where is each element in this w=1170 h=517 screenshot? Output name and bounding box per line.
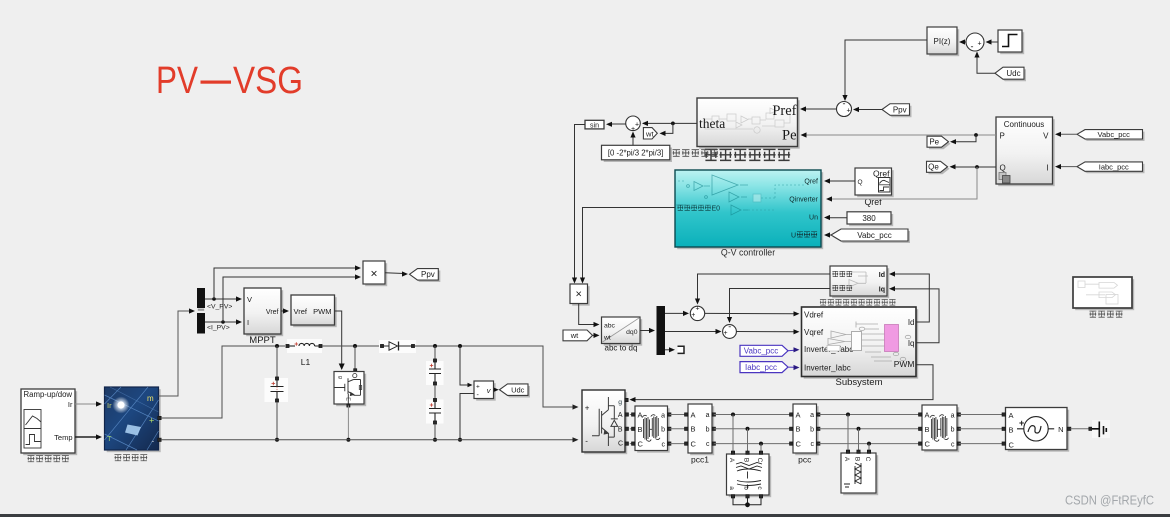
svg-text:C: C bbox=[638, 440, 644, 449]
wire step to sum bbox=[990, 41, 998, 43]
svg-text:B: B bbox=[854, 457, 861, 461]
wire phase B bbox=[819, 428, 921, 430]
svg-text:Un: Un bbox=[809, 215, 818, 222]
wire phase C bbox=[714, 443, 791, 445]
svg-text:sin: sin bbox=[590, 122, 599, 129]
ground bbox=[1092, 420, 1110, 438]
svg-text:Vqref: Vqref bbox=[804, 328, 824, 337]
block Subsystem bbox=[804, 309, 919, 379]
wire phase A bbox=[630, 414, 633, 416]
demux bar bbox=[657, 306, 666, 355]
PV ports bbox=[158, 416, 161, 419]
caption rotor mechanical equation bbox=[705, 149, 717, 160]
svg-text:I: I bbox=[1046, 164, 1048, 173]
svg-text:A: A bbox=[618, 412, 623, 419]
svg-text:Pe: Pe bbox=[929, 138, 939, 147]
tag From Iabc_pcc right bbox=[1079, 164, 1145, 173]
svg-text:Qref: Qref bbox=[804, 179, 818, 186]
wire P output to theta Pe bbox=[803, 134, 996, 136]
svg-text:380: 380 bbox=[862, 214, 876, 223]
wire MPPT to boost PWM bbox=[281, 310, 287, 312]
inverter g port bbox=[625, 398, 628, 401]
svg-text:+: + bbox=[1019, 418, 1024, 428]
block Q-V controller bbox=[677, 172, 823, 249]
svg-text:V: V bbox=[247, 295, 252, 304]
wire Qref to Q-V bbox=[826, 180, 855, 182]
svg-text:A: A bbox=[925, 411, 930, 420]
tag From Iabc_pcc purple bbox=[740, 362, 788, 373]
svg-text:L1: L1 bbox=[301, 357, 311, 367]
block boost Vref PWM bbox=[293, 297, 337, 327]
svg-text:dq0: dq0 bbox=[626, 329, 638, 336]
sum U2 (Pref loop) bbox=[837, 102, 852, 117]
svg-text:wt: wt bbox=[645, 129, 654, 138]
svg-text:-: - bbox=[585, 436, 588, 445]
svg-text:+: + bbox=[977, 41, 981, 48]
svg-text:C: C bbox=[925, 440, 931, 449]
svg-text:B: B bbox=[925, 425, 930, 434]
svg-text:B: B bbox=[796, 425, 801, 434]
svg-text:+: + bbox=[691, 312, 695, 319]
svg-text:A: A bbox=[691, 410, 696, 419]
wire Udc measure branches bbox=[460, 346, 471, 385]
svg-text:theta: theta bbox=[699, 116, 725, 131]
wire sum U3 to sin bbox=[608, 123, 626, 125]
svg-text:c: c bbox=[662, 441, 666, 448]
svg-text:Vref: Vref bbox=[294, 307, 308, 316]
wire Iabc_pcc to I bbox=[1057, 166, 1077, 168]
svg-text:c: c bbox=[811, 441, 815, 448]
svg-text:Udc: Udc bbox=[511, 385, 525, 394]
tag From wt left bbox=[563, 330, 593, 341]
svg-text:abc: abc bbox=[604, 323, 616, 330]
block product E0*sin bbox=[572, 286, 590, 306]
wire wt to abc2dq bbox=[593, 334, 599, 336]
svg-text:B: B bbox=[1009, 426, 1014, 435]
svg-text:-: - bbox=[843, 99, 846, 109]
caption irradiance and temperature bbox=[27, 456, 34, 462]
wire demux d to sum V1 bbox=[665, 312, 687, 314]
block step source bbox=[1000, 32, 1024, 54]
svg-text:wt: wt bbox=[603, 335, 611, 342]
svg-text:Vabc_pcc: Vabc_pcc bbox=[1098, 130, 1131, 139]
block product Ppv bbox=[365, 263, 387, 286]
svg-text:+: + bbox=[723, 330, 727, 337]
wire phase B bbox=[714, 428, 791, 430]
svg-text:<V_PV>: <V_PV> bbox=[207, 304, 232, 311]
svg-text:+: + bbox=[585, 403, 590, 412]
wire vmeter to Udc tag bbox=[494, 389, 498, 391]
wire Ppv to sum bbox=[856, 109, 882, 111]
svg-text:a: a bbox=[728, 486, 735, 490]
svg-text:A: A bbox=[843, 457, 850, 462]
wire Subsystem Iq up to impedance bbox=[891, 289, 939, 343]
svg-text:C: C bbox=[864, 457, 871, 462]
svg-text:Temp: Temp bbox=[54, 433, 72, 442]
svg-text:Id: Id bbox=[908, 318, 915, 327]
caption expand to three phase bbox=[673, 150, 680, 157]
svg-text:c: c bbox=[706, 441, 710, 448]
wire phase B bbox=[630, 428, 633, 430]
wire sum to theta Pref bbox=[803, 108, 837, 110]
svg-text:Q: Q bbox=[858, 179, 863, 186]
impedance inner diagram bbox=[849, 272, 868, 287]
block transformer bbox=[637, 408, 670, 453]
svg-text:g: g bbox=[337, 376, 343, 379]
terminator bbox=[678, 346, 685, 353]
svg-text:c: c bbox=[951, 441, 955, 448]
wire PV minus rail bbox=[161, 439, 577, 441]
svg-text:Inverter_Iabc: Inverter_Iabc bbox=[804, 363, 851, 372]
svg-text:Continuous: Continuous bbox=[1004, 120, 1044, 129]
transformer windings bbox=[642, 415, 660, 442]
block PV array bbox=[107, 389, 161, 452]
wire impedance q output to sum V2 bbox=[730, 289, 831, 323]
wire impedance d output to sum V1 bbox=[698, 274, 831, 304]
wire I_PV junction to product bbox=[223, 277, 360, 322]
wire sum V2 to Vqref bbox=[736, 331, 797, 333]
wire PV plus to boost rail bbox=[161, 346, 285, 418]
svg-text:pcc: pcc bbox=[798, 455, 812, 465]
svg-text:+: + bbox=[476, 384, 480, 391]
block constant [0 -2*pi/3 2*pi/3] bbox=[604, 148, 672, 163]
load1 neutral tie bbox=[733, 498, 761, 505]
svg-text:C: C bbox=[796, 439, 802, 448]
wire junction to Pe tag bbox=[952, 135, 976, 142]
wire Vabc_pcc to U inverter bbox=[826, 234, 831, 236]
wire to DC link caps bbox=[434, 346, 436, 360]
block MPPT bbox=[246, 290, 283, 336]
svg-text:a: a bbox=[810, 412, 814, 419]
svg-text:×: × bbox=[370, 267, 377, 281]
svg-text:E: E bbox=[344, 397, 350, 401]
wire junction to wt tag bbox=[661, 123, 673, 133]
svg-text:Vdref: Vdref bbox=[804, 310, 824, 319]
svg-text:Ppv: Ppv bbox=[893, 105, 907, 114]
svg-text:B: B bbox=[638, 425, 643, 434]
svg-text:A: A bbox=[1009, 411, 1014, 420]
svg-text:-: - bbox=[728, 322, 731, 332]
svg-text:Ir: Ir bbox=[68, 400, 73, 409]
svg-text:wt: wt bbox=[570, 331, 579, 340]
wire pcc1 taps to load1 bbox=[732, 415, 734, 453]
svg-text:Id: Id bbox=[879, 272, 885, 279]
svg-text:PV: PV bbox=[156, 60, 199, 102]
svg-text:pcc1: pcc1 bbox=[691, 455, 709, 465]
wire E0 output to product bbox=[583, 208, 676, 282]
svg-text:Ppv: Ppv bbox=[421, 270, 435, 279]
block impedance drop calc (virtual impedance) bbox=[832, 268, 889, 298]
svg-text:Iabc_pcc: Iabc_pcc bbox=[745, 363, 777, 372]
svg-text:PWM: PWM bbox=[313, 307, 331, 316]
wire sum V1 to Vdref bbox=[705, 312, 798, 314]
svg-text:Iq: Iq bbox=[908, 339, 915, 348]
svg-text:abc to dq: abc to dq bbox=[605, 344, 638, 353]
wire rail to cap bbox=[276, 346, 278, 377]
svg-text:P: P bbox=[1000, 132, 1005, 141]
svg-text:Vabc_pcc: Vabc_pcc bbox=[744, 347, 779, 356]
block three-phase source bbox=[1008, 410, 1069, 452]
PV panel texture bbox=[105, 387, 159, 450]
wire Subsystem Id up to impedance bbox=[891, 274, 929, 322]
wire phase A bbox=[959, 414, 1002, 416]
wire phase A bbox=[670, 414, 687, 416]
svg-text:+: + bbox=[695, 306, 699, 313]
shunt capacitor C1 bbox=[265, 378, 289, 402]
wire Udc to sum bbox=[977, 54, 995, 73]
wire Subsystem PWM to inverter g bbox=[631, 365, 933, 400]
wire V_PV junction to product bbox=[214, 268, 360, 299]
svg-text:+: + bbox=[635, 122, 639, 129]
svg-text:C: C bbox=[618, 441, 623, 448]
wire demux q to sum V2 bbox=[665, 331, 720, 333]
bottom dark strip bbox=[0, 514, 1170, 517]
svg-text:PI(z): PI(z) bbox=[934, 37, 951, 46]
DC link capacitor C3 bbox=[426, 400, 444, 424]
inverter IGBT icon bbox=[592, 397, 618, 446]
block rotor mechanical equation (theta) bbox=[699, 100, 800, 149]
wire PI(z) to sum Pref loop bbox=[845, 40, 927, 99]
svg-text:Qe: Qe bbox=[928, 163, 939, 172]
block inverter bridge bbox=[584, 392, 627, 454]
wire constant to sum U3 bbox=[632, 134, 634, 146]
svg-text:Pref: Pref bbox=[772, 103, 796, 119]
caption impedance drop calc bbox=[820, 300, 826, 306]
wire N to ground bbox=[1071, 428, 1091, 430]
tag Goto Ppv bbox=[412, 271, 441, 283]
svg-text:b: b bbox=[810, 426, 814, 433]
Q-V port label E0 bbox=[677, 205, 683, 210]
tag Goto Udc bbox=[502, 386, 531, 398]
svg-text:Vref: Vref bbox=[266, 309, 279, 316]
sum U1 (Udc error) bbox=[966, 33, 984, 51]
svg-text:b: b bbox=[706, 426, 710, 433]
wire abc2dq to demux bbox=[640, 330, 653, 332]
svg-text:Ir: Ir bbox=[107, 401, 112, 410]
svg-text:Udc: Udc bbox=[1006, 69, 1020, 78]
wire Q output to Qe and Qinverter bbox=[951, 166, 996, 168]
impedance port q component bbox=[832, 285, 838, 290]
svg-text:a: a bbox=[951, 412, 955, 419]
svg-text:a: a bbox=[706, 412, 710, 419]
ramp icon bbox=[24, 410, 41, 449]
svg-text:[0 -2*pi/3 2*pi/3]: [0 -2*pi/3 2*pi/3] bbox=[608, 148, 663, 157]
wire junction down to Qinverter bbox=[828, 167, 977, 199]
wire phase B bbox=[959, 428, 1002, 430]
wire demux 0 to terminator bbox=[665, 349, 674, 351]
wire Temp to PV bbox=[75, 436, 100, 438]
svg-text:T: T bbox=[107, 434, 112, 443]
Subsystem pink block bbox=[885, 325, 899, 352]
impedance port d component bbox=[832, 271, 838, 276]
wire junction to IGBT bbox=[354, 346, 356, 370]
wire Vabc_pcc to V bbox=[1057, 133, 1077, 135]
svg-text:U: U bbox=[791, 232, 796, 239]
tag From Udc bbox=[997, 69, 1026, 81]
svg-text:A: A bbox=[728, 458, 735, 463]
svg-text:+: + bbox=[149, 416, 154, 426]
svg-text:V: V bbox=[1043, 132, 1049, 141]
wire pcc taps to load2 bbox=[847, 415, 849, 452]
block three-phase RLC load 1 bbox=[729, 456, 772, 497]
svg-text:g: g bbox=[618, 399, 622, 406]
svg-text:MPPT: MPPT bbox=[249, 335, 276, 346]
block Continuous P-Q measurement bbox=[998, 119, 1054, 186]
DC link capacitor C2 bbox=[426, 361, 444, 385]
sum V1 (Vdref) bbox=[690, 306, 704, 320]
junction IGBT top bbox=[353, 344, 357, 348]
load2 R icon bbox=[844, 463, 861, 487]
tag From Vabc_pcc (QV) bbox=[833, 231, 910, 243]
wire phase C bbox=[670, 443, 687, 445]
svg-text:<I_PV>: <I_PV> bbox=[207, 325, 230, 332]
svg-text:b: b bbox=[743, 486, 750, 490]
svg-text:-: - bbox=[971, 42, 974, 52]
bus selector bar bbox=[197, 288, 205, 308]
svg-text:+: + bbox=[846, 108, 850, 115]
block PI(z) bbox=[929, 29, 959, 56]
svg-text:N: N bbox=[1058, 425, 1063, 434]
svg-text:Q-V controller: Q-V controller bbox=[721, 248, 775, 258]
wire theta output to sum U3 bbox=[643, 122, 697, 124]
wire PWM to IGBT gate bbox=[335, 311, 342, 367]
svg-text:Ramp-up/dow: Ramp-up/dow bbox=[24, 390, 73, 399]
svg-text:×: × bbox=[575, 289, 581, 301]
inductor L1 bbox=[287, 339, 322, 353]
svg-text:E0: E0 bbox=[712, 206, 721, 213]
block constant 380 bbox=[849, 214, 893, 226]
wire I_PV to MPPT bbox=[205, 321, 241, 323]
tag From Ppv top bbox=[884, 106, 912, 118]
theta inner diagram bbox=[705, 108, 790, 133]
wire Iabc to Inverter_Iabc bbox=[788, 366, 798, 368]
junction Udc measure top bbox=[458, 344, 462, 348]
block pcc1 measurement bbox=[690, 406, 714, 455]
wire phase C bbox=[630, 443, 633, 445]
svg-text:Qinverter: Qinverter bbox=[789, 197, 818, 204]
svg-text:C: C bbox=[756, 458, 763, 463]
inverter output ports bbox=[625, 413, 628, 416]
svg-text:VSG: VSG bbox=[233, 60, 303, 102]
svg-text:Q: Q bbox=[1000, 164, 1006, 173]
svg-text:B: B bbox=[743, 458, 750, 462]
wire Ir to PV bbox=[75, 403, 100, 405]
tag Goto Pe bbox=[929, 138, 951, 149]
svg-text:B: B bbox=[691, 425, 696, 434]
svg-text:b: b bbox=[661, 427, 665, 434]
wire product to Ppv tag bbox=[385, 272, 404, 275]
svg-text:B: B bbox=[618, 426, 623, 433]
wire PV m to bus selector bbox=[159, 311, 194, 396]
junction DC link caps bbox=[433, 344, 437, 348]
transformer windings bbox=[930, 415, 948, 442]
svg-text:Iabc_pcc: Iabc_pcc bbox=[1099, 162, 1129, 171]
tag From Vabc_pcc right bbox=[1079, 132, 1145, 141]
svg-text:m: m bbox=[147, 394, 154, 403]
wire product to abc2dq bbox=[579, 304, 598, 325]
svg-text:C: C bbox=[691, 439, 697, 448]
block transformer bbox=[924, 407, 959, 452]
Continuous corner icon bbox=[999, 173, 1006, 180]
caption PV array bbox=[114, 455, 121, 461]
junction shunt cap top bbox=[275, 344, 279, 348]
wire V_PV to MPPT bbox=[205, 298, 241, 300]
wire cap to minus rail bbox=[276, 402, 278, 440]
block pcc measurement bbox=[795, 406, 819, 455]
caption waveform scope block bbox=[1075, 279, 1134, 310]
tag Goto Qe bbox=[929, 163, 950, 174]
wire diode to inverter plus bbox=[415, 346, 578, 407]
block voltage measurement Udc bbox=[476, 383, 496, 401]
wire phase C bbox=[819, 443, 921, 445]
block Qref signal builder bbox=[857, 170, 894, 197]
wire between caps bbox=[434, 385, 436, 399]
wire caps to minus rail bbox=[434, 424, 436, 440]
svg-text:A: A bbox=[638, 411, 643, 420]
svg-text:CSDN @FtREyfC: CSDN @FtREyfC bbox=[1065, 493, 1154, 508]
wire phase A bbox=[714, 414, 791, 416]
block sin bbox=[585, 120, 604, 129]
svg-text:A: A bbox=[796, 410, 801, 419]
block abc to dq transform bbox=[604, 319, 643, 346]
wire sin output down to product bbox=[575, 125, 586, 282]
Q-V inner diagram bbox=[676, 175, 805, 215]
svg-text:a: a bbox=[661, 412, 665, 419]
wire IGBT emitter to minus rail bbox=[347, 404, 350, 407]
Subsystem inner diagram bbox=[827, 322, 911, 362]
wire sum to PI(z) bbox=[962, 41, 966, 43]
svg-text:Pe: Pe bbox=[782, 128, 797, 144]
wire phase B bbox=[670, 428, 687, 430]
wire L1 to diode bbox=[322, 345, 380, 347]
svg-text:I: I bbox=[247, 318, 249, 327]
sum V2 (Vqref) bbox=[723, 325, 737, 339]
block three-phase load 2 bbox=[843, 455, 878, 495]
sum U3 (wt+phase) bbox=[626, 116, 641, 131]
svg-text:b: b bbox=[951, 427, 955, 434]
tag From Vabc_pcc purple bbox=[740, 345, 788, 356]
tag Goto wt bbox=[643, 128, 657, 139]
wire phase A bbox=[819, 414, 921, 416]
block IGBT boost switch bbox=[336, 374, 366, 407]
wire Vabc to Inverter_Vabc bbox=[788, 349, 798, 352]
block Ramp-up/down source bbox=[23, 391, 77, 455]
svg-text:Vabc_pcc: Vabc_pcc bbox=[857, 231, 892, 240]
svg-text:-: - bbox=[152, 437, 155, 446]
svg-text:C: C bbox=[1009, 440, 1015, 449]
wire 380 to Un bbox=[826, 217, 847, 219]
diode D1 bbox=[379, 340, 416, 353]
svg-text:Subsystem: Subsystem bbox=[836, 377, 883, 388]
wire phase C bbox=[959, 443, 1002, 445]
svg-text:Iq: Iq bbox=[879, 286, 885, 293]
load1 RLC icon bbox=[736, 463, 762, 489]
